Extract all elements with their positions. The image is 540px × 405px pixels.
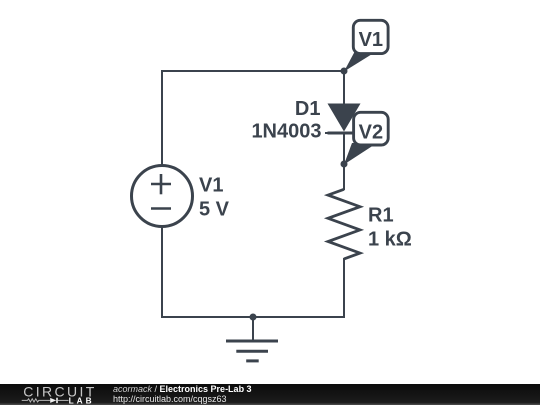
wire: left vertical upper (top corner to V1 source): [161, 70, 163, 166]
junction: top node dot: [341, 68, 348, 75]
wire: top horizontal (node V1 net): [161, 70, 344, 72]
wire: right vertical upper (top node to diode anode): [343, 70, 345, 104]
diode D1 (cathode down): [328, 104, 361, 134]
value label V1 5 V: [199, 175, 230, 221]
value label R1 1 kOhm: [368, 205, 412, 251]
wire: left vertical lower (V1 source to bottom wire): [161, 226, 163, 318]
node flag V2 (wedge pointer): [344, 143, 377, 165]
svg-text:5 V: 5 V: [199, 198, 230, 220]
svg-text:1 kΩ: 1 kΩ: [368, 228, 412, 250]
ground: [226, 317, 278, 361]
junction: middle node dot (V2): [341, 161, 348, 168]
svg-text:V2: V2: [359, 122, 383, 144]
CircuitLab logo: [14, 384, 106, 405]
svg-text:V1: V1: [199, 175, 223, 197]
svg-text:LAB: LAB: [69, 395, 95, 405]
junction: ground node on bottom wire: [250, 314, 257, 321]
svg-text:D1: D1: [295, 98, 321, 120]
value label D1 1N4003: [251, 98, 321, 143]
node flag V2 (rounded box): [354, 112, 389, 145]
logo resistor zigzag: [22, 399, 51, 402]
svg-text:V1: V1: [359, 29, 383, 51]
resistor R1 (zigzag): [328, 189, 360, 259]
wire: right vertical lower (resistor to bottom wire): [343, 258, 345, 318]
node flag V1 (wedge pointer): [344, 51, 377, 72]
node flag V1 (rounded box): [353, 20, 388, 53]
voltage source V1 (circle with plus and minus): [132, 166, 193, 227]
svg-text:1N4003: 1N4003: [251, 121, 321, 143]
footer bar: [0, 384, 540, 405]
logo diode: [50, 398, 56, 403]
svg-text:R1: R1: [368, 205, 394, 227]
label tick for D1 value: [325, 132, 338, 134]
wire: right vertical middle (diode cathode to resistor, through node V2): [343, 132, 345, 190]
wire: bottom horizontal (ground net): [161, 316, 345, 318]
